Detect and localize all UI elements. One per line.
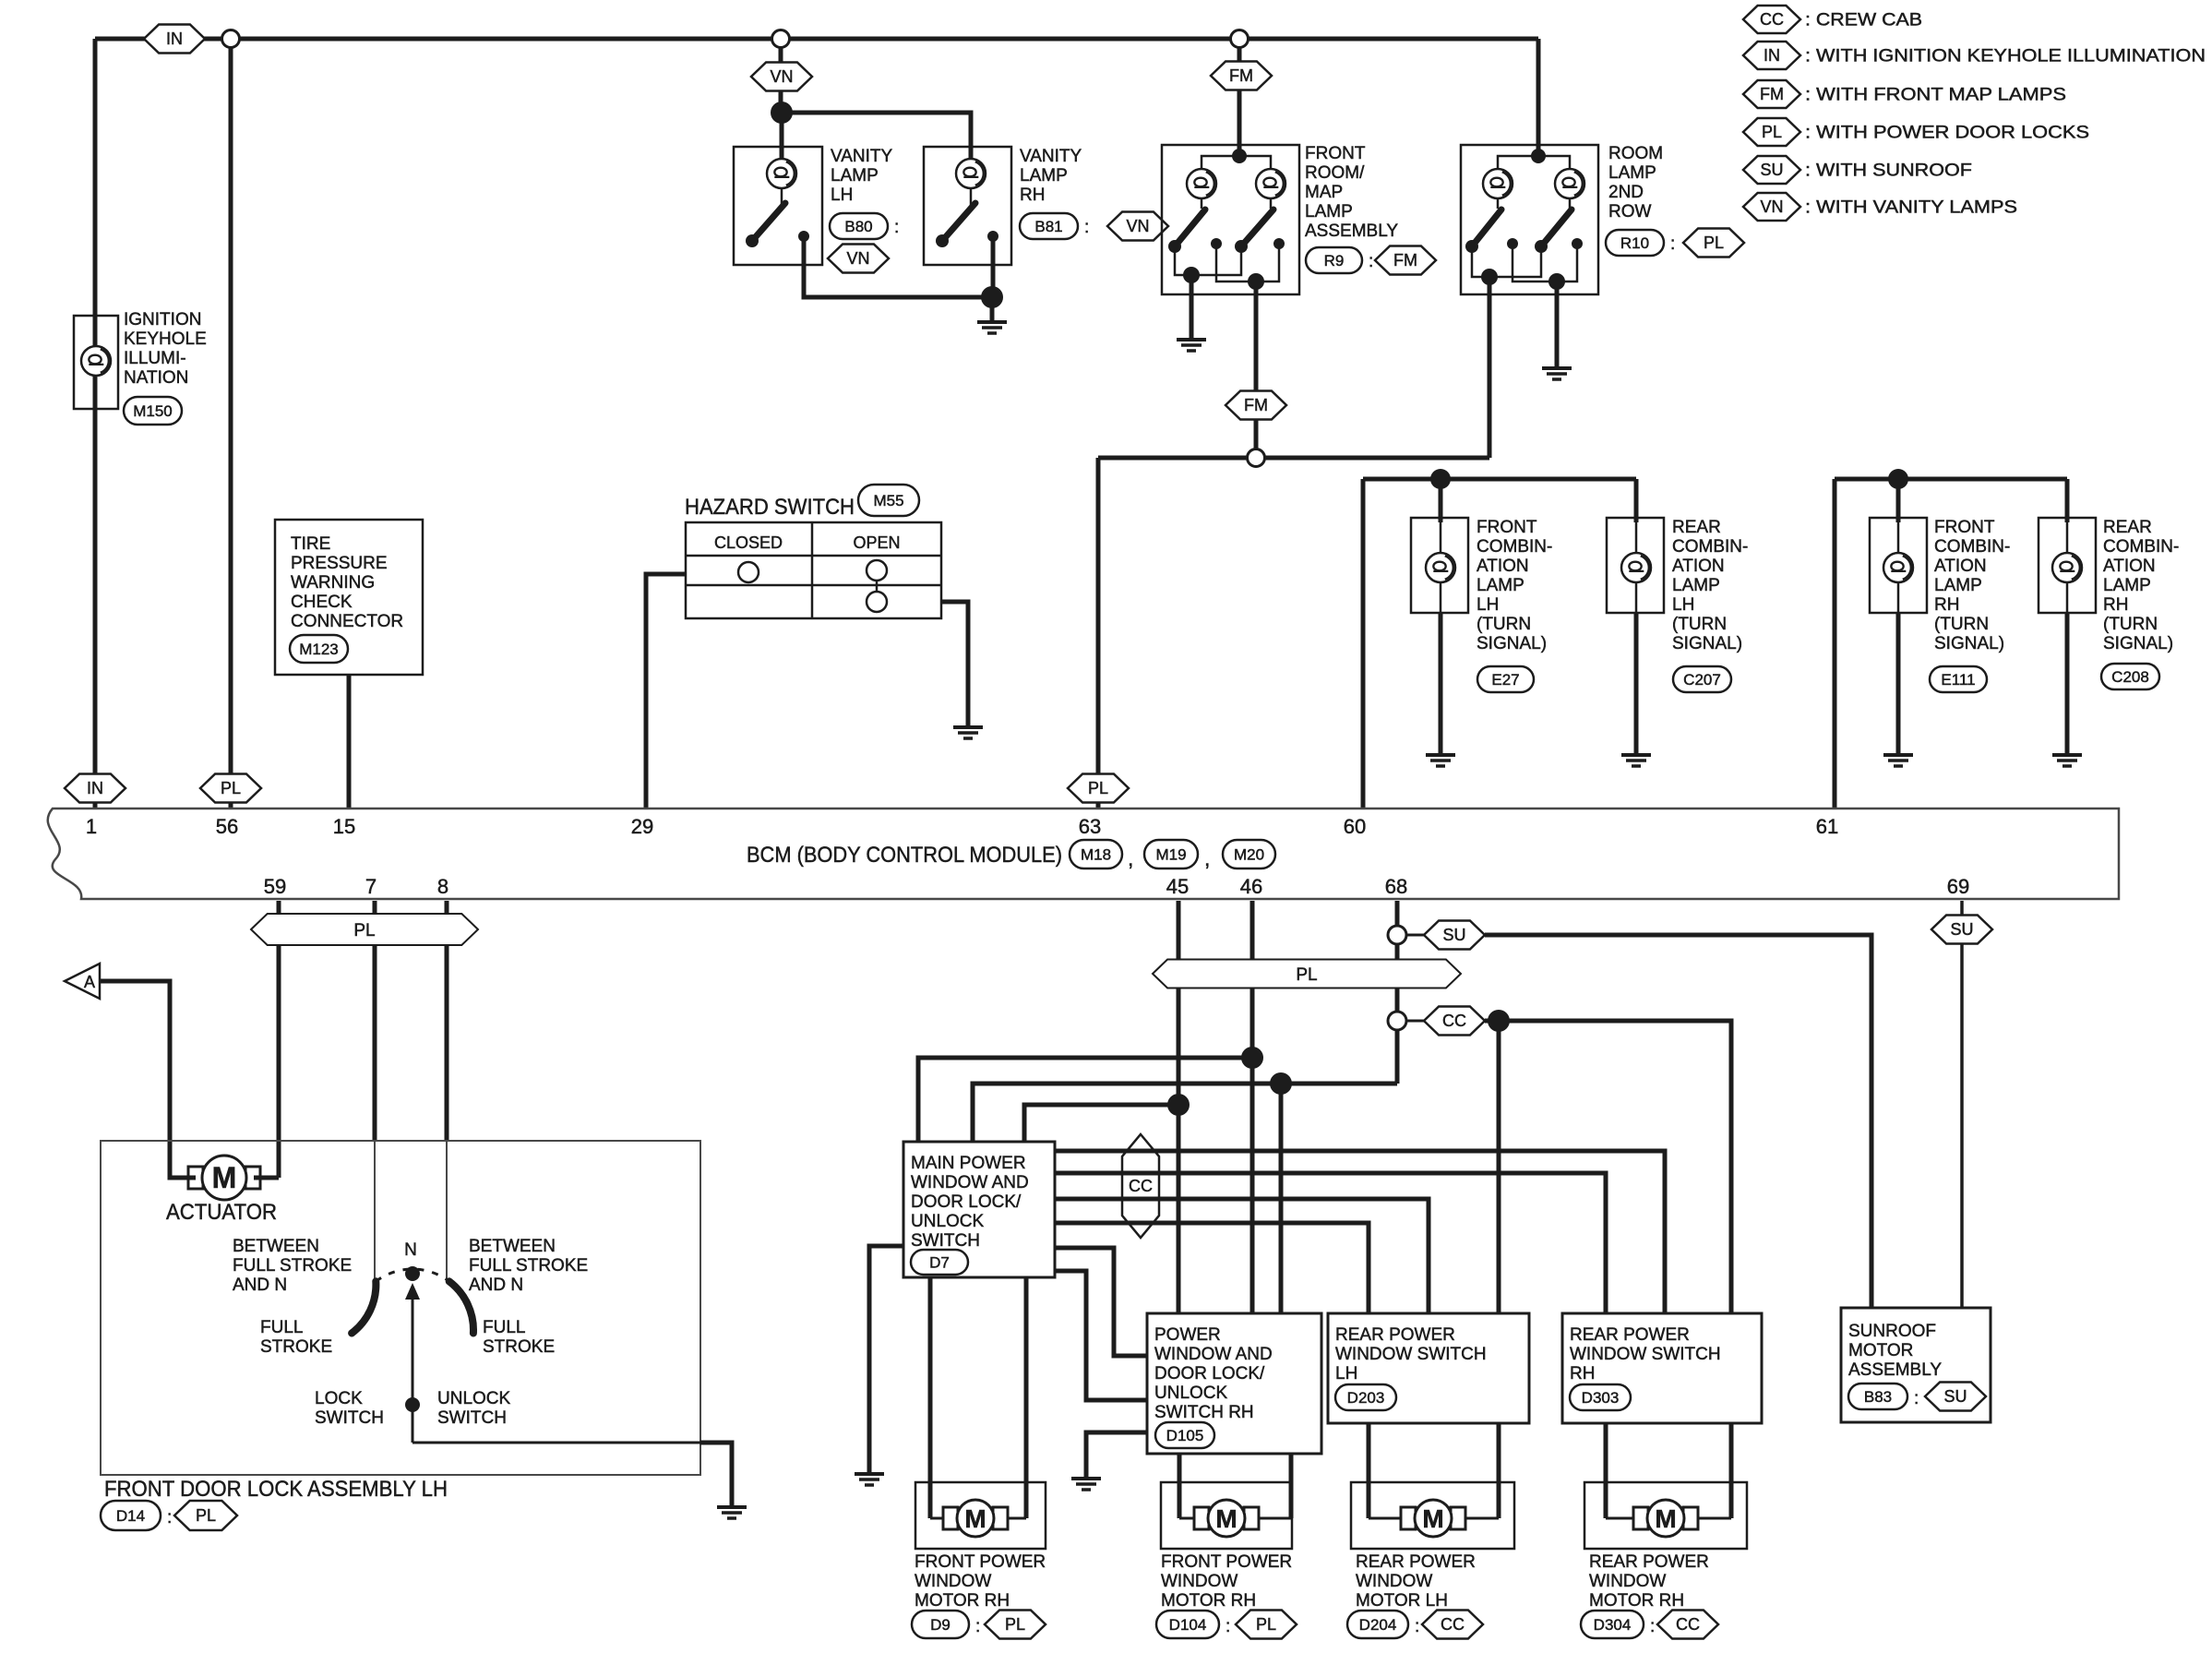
component REAR POWER WINDOW MOTOR RH box D304 xyxy=(1584,1482,1747,1549)
wire D7 bottom left to motor D9 xyxy=(928,1277,933,1518)
connector VN below top bus xyxy=(751,63,812,91)
component FRONT POWER WINDOW MOTOR RH box D104 xyxy=(1161,1482,1292,1549)
svg-text:ACTUATOR: ACTUATOR xyxy=(166,1200,277,1225)
connector oval R10 xyxy=(1606,230,1664,256)
svg-text:LAMP: LAMP xyxy=(1608,163,1656,183)
wire BCM pin 69 down to sunroof xyxy=(1960,901,1964,1308)
svg-text:FM: FM xyxy=(1244,396,1268,414)
wire vanity RH lamp to switch xyxy=(970,185,973,205)
legend PL xyxy=(1743,118,1800,146)
svg-text:FRONT POWER: FRONT POWER xyxy=(915,1552,1046,1572)
wire motor D9 right link xyxy=(1007,1517,1026,1520)
wire R10 lamp left to switch xyxy=(1497,185,1500,209)
svg-text:M: M xyxy=(212,1161,237,1194)
svg-text:FRONT: FRONT xyxy=(1477,518,1537,537)
svg-text:59: 59 xyxy=(264,875,286,898)
wire D105 bottom right to motor D104 xyxy=(1289,1454,1294,1518)
svg-text:IN: IN xyxy=(166,30,183,48)
svg-text:56: 56 xyxy=(216,815,238,838)
svg-text:DOOR LOCK/: DOOR LOCK/ xyxy=(911,1192,1022,1212)
svg-text:VN: VN xyxy=(1126,217,1149,235)
junction open circle CC tap xyxy=(1388,1012,1406,1030)
lock switch dot xyxy=(405,1397,420,1412)
wire D203 bottom right to motor D204 xyxy=(1497,1423,1501,1518)
svg-text:SIGNAL): SIGNAL) xyxy=(2103,634,2173,653)
svg-text:D304: D304 xyxy=(1594,1616,1632,1634)
svg-text:CC: CC xyxy=(1442,1012,1466,1030)
wire E27 through box xyxy=(1440,522,1442,613)
component REAR COMBINATION LAMP RH box xyxy=(2039,518,2096,613)
svg-text:REAR POWER: REAR POWER xyxy=(1570,1325,1690,1345)
svg-text:PL: PL xyxy=(1005,1615,1025,1634)
ground C208 xyxy=(2052,753,2082,757)
svg-text:PL: PL xyxy=(1256,1615,1276,1634)
wire E111 to ground xyxy=(1896,613,1901,754)
wire vertical from junction to BCM pin 56 xyxy=(229,39,233,809)
lamp symbol C207 xyxy=(1621,553,1651,582)
wire BCM pin 68 down xyxy=(1395,901,1400,1084)
component FRONT ROOM/MAP LAMP ASSEMBLY box R9 xyxy=(1162,145,1299,294)
connector oval M19 xyxy=(1144,840,1198,868)
wire R10 internal split xyxy=(1498,156,1570,170)
svg-text:: CREW CAB: : CREW CAB xyxy=(1805,11,1922,30)
ground E111 xyxy=(1883,753,1913,757)
junction dot R10 ground xyxy=(1548,273,1565,290)
svg-text:COMBIN-: COMBIN- xyxy=(1477,537,1552,557)
svg-text:R9: R9 xyxy=(1324,252,1345,270)
svg-text:60: 60 xyxy=(1344,815,1366,838)
svg-text:NATION: NATION xyxy=(124,368,188,388)
svg-text:A: A xyxy=(84,973,95,991)
svg-text:RH: RH xyxy=(1934,595,1959,615)
wire vanity LH lamp to switch xyxy=(781,185,783,205)
wire D7 to D203 right 1 xyxy=(1055,1199,1429,1313)
wire BCM pin 60 up xyxy=(1361,479,1366,809)
svg-text:MAP: MAP xyxy=(1305,183,1343,202)
svg-text:CC: CC xyxy=(1129,1177,1153,1195)
wire C207 through box xyxy=(1635,522,1638,613)
junction dot CC branch xyxy=(1488,1010,1510,1032)
svg-text:FRONT DOOR LOCK ASSEMBLY LH: FRONT DOOR LOCK ASSEMBLY LH xyxy=(104,1477,448,1502)
component FRONT DOOR LOCK ASSEMBLY LH box xyxy=(101,1141,700,1475)
connector PL above BCM pin 56 xyxy=(200,774,261,803)
connector IN on top bus xyxy=(144,25,205,54)
svg-text:M55: M55 xyxy=(873,492,903,509)
svg-text:FM: FM xyxy=(1760,85,1784,103)
svg-text:68: 68 xyxy=(1385,875,1407,898)
wire top bus right end down to R10 xyxy=(1536,39,1541,156)
switch blade vanity LH xyxy=(752,203,785,241)
svg-text:WINDOW: WINDOW xyxy=(1589,1572,1666,1591)
component REAR COMBINATION LAMP LH box xyxy=(1607,518,1664,613)
connector SU below pin 69 xyxy=(1931,916,1992,944)
svg-text:D203: D203 xyxy=(1347,1389,1385,1407)
hazard contact open 2 xyxy=(867,592,887,612)
motor D9 xyxy=(943,1507,958,1529)
component FRONT COMBINATION LAMP LH box xyxy=(1411,518,1468,613)
wire C207 to ground xyxy=(1634,613,1639,754)
wire R9 to ground xyxy=(1190,275,1194,339)
svg-text:VANITY: VANITY xyxy=(831,147,893,166)
svg-text::: : xyxy=(1084,218,1089,237)
connector oval R9 xyxy=(1306,247,1362,273)
svg-text::: : xyxy=(1914,1389,1919,1408)
wire hazard to BCM pin 29 xyxy=(646,574,686,809)
legend IN xyxy=(1743,42,1800,69)
svg-text:CC: CC xyxy=(1760,10,1784,29)
wire D203 bottom left to motor D204 xyxy=(1367,1423,1371,1518)
wire top bus xyxy=(95,37,1538,42)
wire run down to BCM pin 63 xyxy=(1096,458,1101,809)
wire CC branch down to D203 xyxy=(1497,1021,1501,1313)
svg-text:ATION: ATION xyxy=(1934,557,1987,576)
svg-text:TIRE: TIRE xyxy=(291,534,330,554)
svg-text:IN: IN xyxy=(1764,46,1780,65)
legend CC xyxy=(1743,6,1800,33)
wire C208 through box xyxy=(2066,522,2069,613)
junction open circle at top bus x846 xyxy=(772,30,790,48)
junction dot R10 output xyxy=(1481,269,1498,285)
lamp symbol C208 xyxy=(2052,553,2082,582)
svg-text:ROOM/: ROOM/ xyxy=(1305,163,1365,183)
svg-text:WARNING: WARNING xyxy=(291,573,375,593)
svg-text:ROOM: ROOM xyxy=(1608,144,1663,163)
svg-text:15: 15 xyxy=(333,815,355,838)
switch arc full stroke left xyxy=(352,1281,376,1333)
wire motor D104 right link xyxy=(1258,1517,1291,1520)
svg-text:VANITY: VANITY xyxy=(1020,147,1082,166)
svg-text:HAZARD SWITCH: HAZARD SWITCH xyxy=(685,495,855,520)
contact dot R9 left xyxy=(1211,238,1222,249)
wire SU tap link xyxy=(1406,934,1425,937)
connector oval E111 xyxy=(1930,666,1987,692)
svg-text:: WITH VANITY LAMPS: : WITH VANITY LAMPS xyxy=(1805,198,2017,218)
svg-text:C208: C208 xyxy=(2111,668,2149,686)
svg-text:,: , xyxy=(1128,846,1133,870)
junction dot R9 ground xyxy=(1183,267,1200,283)
connector oval M123 xyxy=(290,635,348,663)
connector oval D303 xyxy=(1570,1384,1631,1410)
wire CC to D303 xyxy=(1485,1021,1731,1313)
connector VN beside B81 xyxy=(1107,212,1168,241)
svg-text:KEYHOLE: KEYHOLE xyxy=(124,329,207,349)
junction dot RH branch xyxy=(1888,469,1908,489)
wire BCM pin 46 down to D105 xyxy=(1250,901,1255,1313)
svg-text:ASSEMBLY: ASSEMBLY xyxy=(1848,1360,1942,1380)
switch arc full stroke right xyxy=(449,1281,473,1333)
svg-text:FM: FM xyxy=(1229,66,1253,85)
svg-text:LH: LH xyxy=(1335,1364,1357,1384)
svg-text:R10: R10 xyxy=(1620,234,1649,252)
wire E27 branch down xyxy=(1439,479,1443,522)
svg-text:CHECK: CHECK xyxy=(291,593,353,612)
wire motor D304 left link xyxy=(1606,1517,1634,1520)
contact dot R9 right xyxy=(1273,238,1285,249)
ground vanity lamps xyxy=(977,320,1007,324)
lamp symbol ignition keyhole xyxy=(81,346,111,376)
svg-text:M18: M18 xyxy=(1081,845,1111,863)
wire R10 bottom run 1 xyxy=(1472,246,1541,277)
legend SU xyxy=(1743,156,1800,184)
connector FM beside R9 oval xyxy=(1375,246,1436,275)
wire R9 output to FM hex xyxy=(1254,281,1259,449)
component VANITY LAMP RH box xyxy=(924,147,1011,265)
component VANITY LAMP LH box xyxy=(734,147,822,265)
svg-text:WINDOW AND: WINDOW AND xyxy=(1154,1345,1273,1364)
wire pin 45 to D7 xyxy=(1024,1105,1178,1142)
wire D7 bottom right to motor D9 xyxy=(1024,1277,1029,1518)
svg-text:COMBIN-: COMBIN- xyxy=(1934,537,2010,557)
junction dot LH branch xyxy=(1430,469,1451,489)
svg-text:LAMP: LAMP xyxy=(1477,576,1524,595)
wire branch top LH xyxy=(1363,477,1636,482)
svg-text:D7: D7 xyxy=(929,1253,950,1271)
svg-text:SU: SU xyxy=(1943,1387,1967,1406)
junction open circle SU tap xyxy=(1388,926,1406,944)
svg-text:VN: VN xyxy=(846,249,869,268)
lamp symbol vanity RH xyxy=(956,159,986,188)
junction dot vanity ground xyxy=(981,286,1003,308)
wire D7 to D203 right 2 xyxy=(1055,1223,1369,1313)
junction dot pin46 D7 xyxy=(1241,1047,1263,1069)
lamp symbol E27 xyxy=(1426,553,1455,582)
svg-text:SU: SU xyxy=(1760,161,1783,179)
svg-text:FRONT POWER: FRONT POWER xyxy=(1161,1552,1292,1572)
connector oval M55 xyxy=(858,485,919,516)
ground D105 xyxy=(1071,1477,1101,1480)
junction dot R9 output xyxy=(1248,273,1264,290)
svg-text:: WITH FRONT MAP LAMPS: : WITH FRONT MAP LAMPS xyxy=(1805,86,2066,105)
svg-text:CC: CC xyxy=(1441,1615,1465,1634)
svg-text::: : xyxy=(167,1508,172,1527)
svg-text:PL: PL xyxy=(196,1506,216,1525)
connector oval B81 xyxy=(1020,213,1078,239)
junction dot branch 68 xyxy=(1270,1072,1292,1095)
svg-text:COMBIN-: COMBIN- xyxy=(2103,537,2179,557)
wire D7 to D303 right 1 xyxy=(1055,1151,1665,1313)
svg-text:LH: LH xyxy=(831,186,853,205)
connector oval D7 xyxy=(911,1250,968,1275)
svg-text:LAMP: LAMP xyxy=(1305,202,1353,222)
wire BCM pin 59 down xyxy=(277,901,281,1178)
svg-text:B81: B81 xyxy=(1034,218,1062,235)
wire E111 through box xyxy=(1897,522,1900,613)
wire left vertical from top bus to BCM pin 1 xyxy=(93,39,98,809)
svg-text:WINDOW SWITCH: WINDOW SWITCH xyxy=(1335,1345,1487,1364)
svg-text:OPEN: OPEN xyxy=(853,533,900,552)
hazard contact open 1 xyxy=(867,560,887,581)
motor D104 xyxy=(1194,1507,1209,1529)
wire motor D204 right link xyxy=(1465,1517,1499,1520)
svg-text:WINDOW: WINDOW xyxy=(915,1572,991,1591)
svg-text:SU: SU xyxy=(1950,920,1973,939)
svg-text:LAMP: LAMP xyxy=(1020,166,1068,186)
svg-text:MOTOR: MOTOR xyxy=(1848,1341,1913,1360)
wire vanity LH output to ground junction xyxy=(804,239,992,297)
svg-text:FM: FM xyxy=(1393,251,1417,270)
wire R9 lamp right to switch xyxy=(1270,185,1273,209)
svg-text:D303: D303 xyxy=(1582,1389,1620,1407)
wire BCM pin 8 down xyxy=(445,901,449,1141)
connector CC beside D304 xyxy=(1657,1611,1718,1639)
wire CC tap link xyxy=(1406,1020,1425,1023)
svg-text:WINDOW: WINDOW xyxy=(1161,1572,1238,1591)
svg-text:LAMP: LAMP xyxy=(1934,576,1982,595)
connector PL beside D9 xyxy=(985,1611,1046,1639)
svg-text:SIGNAL): SIGNAL) xyxy=(1672,634,1742,653)
wire pin 8 inside door box xyxy=(446,1141,448,1280)
svg-text:PL: PL xyxy=(1704,234,1724,252)
connector IN above BCM pin 1 xyxy=(65,774,126,803)
ground E27 xyxy=(1426,753,1455,757)
connector oval M150 xyxy=(124,397,182,425)
wire branch top RH xyxy=(1835,477,2067,482)
svg-text:RH: RH xyxy=(2103,595,2128,615)
svg-text:(TURN: (TURN xyxy=(1934,615,1989,634)
component ROOM LAMP 2ND ROW box R10 xyxy=(1461,145,1598,294)
svg-text:CLOSED: CLOSED xyxy=(714,533,783,552)
svg-text::: : xyxy=(975,1617,980,1636)
wire E111 branch down xyxy=(1896,479,1901,522)
svg-text:SWITCH RH: SWITCH RH xyxy=(1154,1403,1254,1422)
component POWER WINDOW AND DOOR LOCK/UNLOCK SWITCH RH box D105 xyxy=(1147,1313,1321,1454)
connector oval E27 xyxy=(1477,666,1534,692)
svg-text:LAMP: LAMP xyxy=(1672,576,1720,595)
wire D7 left to ground xyxy=(869,1246,903,1473)
svg-text:MOTOR RH: MOTOR RH xyxy=(1589,1591,1684,1611)
svg-text:FULL STROKE: FULL STROKE xyxy=(233,1256,352,1276)
svg-text:PRESSURE: PRESSURE xyxy=(291,554,388,573)
junction dot pin45 D7 xyxy=(1167,1094,1190,1116)
svg-text:M20: M20 xyxy=(1234,845,1264,863)
svg-text:LAMP: LAMP xyxy=(2103,576,2151,595)
svg-text:45: 45 xyxy=(1166,875,1189,898)
svg-text:BETWEEN: BETWEEN xyxy=(469,1237,556,1256)
wire vanity junction to ground xyxy=(990,297,995,321)
svg-text:FULL STROKE: FULL STROKE xyxy=(469,1256,588,1276)
connector oval D203 xyxy=(1335,1384,1396,1410)
component REAR POWER WINDOW SWITCH LH box D203 xyxy=(1328,1313,1529,1423)
svg-text:ASSEMBLY: ASSEMBLY xyxy=(1305,222,1398,241)
svg-text:D104: D104 xyxy=(1169,1616,1207,1634)
svg-text:(TURN: (TURN xyxy=(1672,615,1727,634)
svg-text:ATION: ATION xyxy=(2103,557,2156,576)
connector PL band lower middle xyxy=(1153,960,1461,988)
svg-text:63: 63 xyxy=(1079,815,1101,838)
wire D303 bottom right to motor D304 xyxy=(1729,1423,1734,1518)
hazard contact open link xyxy=(876,572,879,602)
component FRONT POWER WINDOW MOTOR RH box D9 xyxy=(915,1482,1046,1549)
wire R10 bottom run 2 xyxy=(1513,244,1577,281)
switch blade R9 right xyxy=(1241,210,1273,246)
connector oval D104 xyxy=(1156,1611,1219,1638)
svg-text:7: 7 xyxy=(365,875,377,898)
connector VN below B80 xyxy=(828,245,889,273)
wire door box to ground xyxy=(700,1443,732,1506)
svg-text:ILLUMI-: ILLUMI- xyxy=(124,349,186,368)
svg-text:ROW: ROW xyxy=(1608,202,1652,222)
component IGNITION KEYHOLE ILLUMINATION box xyxy=(74,316,118,409)
ground R9 xyxy=(1177,338,1206,341)
svg-text:PL: PL xyxy=(353,921,375,940)
wire pin 68 to D7 xyxy=(973,1084,1397,1142)
wire R10 output to horizontal run xyxy=(1488,277,1492,458)
svg-text:2ND: 2ND xyxy=(1608,183,1644,202)
connector CC beside D204 xyxy=(1422,1611,1483,1639)
component BCM band xyxy=(48,809,2119,899)
wire R9 bottom run 2 xyxy=(1216,244,1279,281)
node N dot xyxy=(405,1266,420,1281)
switch blade vanity RH xyxy=(942,203,975,241)
svg-text:C207: C207 xyxy=(1683,671,1721,689)
svg-text:SUNROOF: SUNROOF xyxy=(1848,1322,1936,1341)
svg-text::: : xyxy=(894,218,899,237)
wire R10 lamp right to switch xyxy=(1569,185,1572,209)
svg-text:LH: LH xyxy=(1672,595,1694,615)
svg-text:M: M xyxy=(1655,1504,1676,1533)
svg-text:: WITH SUNROOF: : WITH SUNROOF xyxy=(1805,162,1972,181)
svg-text:COMBIN-: COMBIN- xyxy=(1672,537,1748,557)
svg-text::: : xyxy=(1670,234,1675,254)
junction open circle at top bus x250 xyxy=(222,30,240,48)
wire SU to sunroof motor xyxy=(1485,935,1871,1308)
motor D304 xyxy=(1633,1507,1648,1529)
wire pin 46 to D7 xyxy=(918,1058,1252,1142)
connector oval D304 xyxy=(1581,1611,1644,1638)
svg-text:: WITH POWER DOOR LOCKS: : WITH POWER DOOR LOCKS xyxy=(1805,124,2089,143)
connector oval D105 xyxy=(1155,1422,1214,1448)
svg-text:MAIN POWER: MAIN POWER xyxy=(911,1154,1026,1173)
ground hazard xyxy=(953,725,983,729)
svg-text:LOCK: LOCK xyxy=(315,1389,363,1408)
svg-text:STROKE: STROKE xyxy=(260,1337,332,1357)
wire hazard to ground xyxy=(941,602,968,726)
svg-text:M150: M150 xyxy=(133,402,173,420)
wire BCM pin 45 down to D105 xyxy=(1177,901,1181,1313)
svg-text:M: M xyxy=(964,1504,986,1533)
wire C207 branch down xyxy=(1634,479,1639,522)
connector PL beside D104 xyxy=(1236,1611,1297,1639)
svg-text:LAMP: LAMP xyxy=(831,166,879,186)
svg-text:FULL: FULL xyxy=(260,1318,303,1337)
wire motor D9 left link xyxy=(930,1517,944,1520)
wire D303 bottom left to motor D304 xyxy=(1604,1423,1608,1518)
junction open circle at top bus x1343 xyxy=(1231,30,1249,48)
ground C207 xyxy=(1621,753,1651,757)
switch arrow line xyxy=(412,1298,414,1437)
legend VN xyxy=(1743,193,1800,221)
connector PL beside D14 xyxy=(174,1501,237,1530)
wire A to actuator xyxy=(100,981,196,1178)
ground door lock assembly xyxy=(717,1505,747,1509)
svg-text:D204: D204 xyxy=(1359,1616,1397,1634)
wire VN branch to vanity lamp LH xyxy=(780,113,784,160)
connector FM below top bus xyxy=(1211,62,1272,90)
svg-text:FRONT: FRONT xyxy=(1934,518,1995,537)
contact dot R10 right xyxy=(1572,238,1583,249)
svg-text:ATION: ATION xyxy=(1477,557,1529,576)
junction dot VN branch xyxy=(771,102,793,124)
wire D105 to ground xyxy=(1086,1432,1147,1478)
wire pin 7 inside door box xyxy=(374,1141,376,1280)
component REAR POWER WINDOW SWITCH RH box D303 xyxy=(1562,1313,1762,1423)
svg-text:UNLOCK: UNLOCK xyxy=(437,1389,511,1408)
svg-text:8: 8 xyxy=(437,875,448,898)
connector CC vertical band xyxy=(1122,1134,1159,1238)
motor D204 xyxy=(1401,1507,1416,1529)
svg-text:UNLOCK: UNLOCK xyxy=(911,1212,985,1231)
wire motor D204 left link xyxy=(1369,1517,1402,1520)
